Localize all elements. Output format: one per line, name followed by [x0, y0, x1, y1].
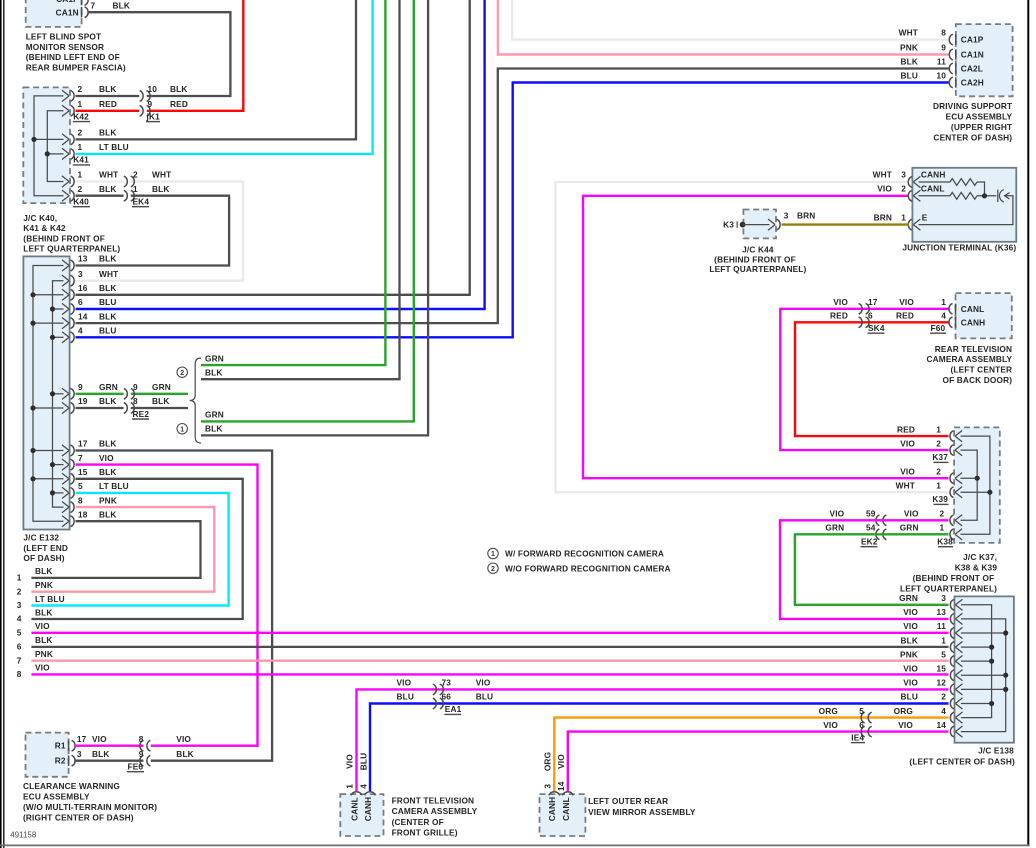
connector FE6: [147, 740, 151, 751]
connector SK4: [859, 303, 863, 314]
svg-text:OF DASH): OF DASH): [23, 553, 64, 563]
svg-text:JUNCTION TERMINAL (K36): JUNCTION TERMINAL (K36): [902, 243, 1016, 253]
mirror pin CANL: [562, 792, 573, 796]
svg-text:1: 1: [78, 99, 83, 109]
clearance warning ECU assembly: [26, 733, 69, 777]
svg-text:2: 2: [936, 466, 941, 476]
svg-text:2: 2: [78, 128, 83, 138]
wire BLK: K42 pin 2 to jK1: [76, 95, 140, 97]
wire LT BLU: K41 pin 1 up to top edge: [76, 0, 373, 154]
svg-text:K40: K40: [73, 197, 89, 207]
connector IE4: [868, 712, 872, 723]
svg-text:(BEHIND FRONT OF: (BEHIND FRONT OF: [913, 573, 995, 583]
E138 internal bus A (pins 3,1,5,2,4): [961, 605, 992, 718]
svg-text:BLK: BLK: [99, 254, 117, 264]
svg-text:K38: K38: [937, 537, 953, 547]
K44 internal wire + pin 3: [743, 224, 770, 226]
svg-text:BLU: BLU: [99, 326, 117, 336]
svg-text:13: 13: [78, 254, 88, 264]
K36 internal junction dot: [982, 193, 987, 198]
svg-text:VIO: VIO: [476, 678, 491, 688]
wire BLK: RE2 pin 8 to brace: [131, 407, 188, 409]
K36 internal: capacitor to E pin: [919, 196, 1013, 225]
svg-text:2: 2: [133, 170, 138, 180]
svg-text:BLK: BLK: [152, 184, 170, 194]
svg-text:VIO: VIO: [345, 754, 355, 769]
svg-text:10: 10: [148, 84, 158, 94]
svg-text:ECU ASSEMBLY: ECU ASSEMBLY: [23, 792, 90, 802]
svg-text:5: 5: [17, 627, 22, 637]
K36 pin CANH: [913, 176, 920, 187]
svg-text:19: 19: [78, 396, 88, 406]
svg-text:(LEFT CENTER OF DASH): (LEFT CENTER OF DASH): [909, 757, 1015, 767]
svg-text:2: 2: [78, 184, 83, 194]
svg-text:CANH: CANH: [363, 797, 373, 822]
svg-text:73: 73: [442, 678, 452, 688]
J/C pin at y=139.4: [62, 134, 69, 145]
K37-39 internal bus 1 (pins 1): [961, 436, 990, 534]
svg-text:CANH: CANH: [961, 317, 986, 327]
wire BLK: E132 pin 17 to FE6 pin 9: [76, 451, 273, 761]
svg-text:PNK: PNK: [900, 649, 918, 659]
svg-text:K41: K41: [73, 155, 89, 165]
svg-text:VIO: VIO: [397, 678, 412, 688]
K37-39 pin at y=492.2: [955, 487, 962, 498]
svg-text:RED: RED: [99, 99, 117, 109]
svg-text:CLEARANCE WARNING: CLEARANCE WARNING: [23, 781, 120, 791]
driving support pin CA2L: [955, 63, 957, 73]
svg-text:J/C K40,: J/C K40,: [23, 213, 57, 223]
E132 pin at y=309.0: [62, 303, 69, 314]
svg-text:4: 4: [941, 706, 946, 716]
K44 node K3 dot: [740, 222, 746, 228]
wire BLK: R2 to FE6: [74, 760, 143, 762]
rear camera pin CANH (F60): [955, 317, 957, 327]
svg-text:2: 2: [17, 586, 22, 596]
svg-text:1: 1: [17, 573, 22, 583]
svg-text:491158: 491158: [10, 831, 37, 840]
svg-text:LT BLU: LT BLU: [99, 481, 129, 491]
svg-text:14: 14: [78, 311, 88, 321]
E132 pin at y=464.6: [62, 459, 69, 470]
svg-text:8: 8: [139, 734, 144, 744]
E132 pin at y=408.0: [62, 402, 69, 413]
svg-text:BLK: BLK: [113, 0, 131, 10]
svg-text:8: 8: [78, 495, 83, 505]
junction connector J/C E138: [955, 596, 1014, 742]
wire LT BLU: E132 pin 5 to stub 3: [31, 493, 228, 606]
svg-text:ORG: ORG: [894, 706, 913, 716]
svg-text:CANL: CANL: [349, 797, 359, 821]
E132 pin at y=492.9: [62, 487, 69, 498]
E138 pin at y=703.5: [955, 698, 962, 709]
svg-text:BLU: BLU: [358, 753, 368, 771]
svg-text:VIO: VIO: [903, 663, 918, 673]
J/C pin at y=195.7: [62, 190, 69, 201]
wire RED: K42 pin 1 to jK1: [76, 110, 140, 112]
svg-text:6: 6: [78, 297, 83, 307]
svg-text:CANH: CANH: [921, 170, 946, 180]
svg-text:BLK: BLK: [35, 635, 53, 645]
E132 pin at y=450.5: [62, 445, 69, 456]
svg-text:BLK: BLK: [99, 439, 117, 449]
left outer rear view mirror assembly: [540, 794, 586, 836]
rear television camera assembly: [956, 293, 1012, 338]
svg-text:BLU: BLU: [900, 692, 918, 702]
svg-text:1: 1: [78, 170, 83, 180]
svg-text:VIO: VIO: [823, 720, 838, 730]
wire WHT: K39 pin 1 to K36 CANH: [555, 182, 948, 492]
svg-text:EK4: EK4: [133, 197, 150, 207]
E138 pin at y=717.6: [955, 712, 962, 723]
svg-text:BRN: BRN: [874, 212, 892, 222]
svg-text:jK1: jK1: [146, 111, 161, 121]
svg-text:BLK: BLK: [176, 749, 194, 759]
wire PNK: E132 pin 8 to stub 2: [31, 507, 214, 592]
E138 pin at y=647.1: [955, 642, 962, 653]
svg-text:PNK: PNK: [35, 580, 53, 590]
svg-text:WHT: WHT: [873, 170, 892, 180]
svg-text:2: 2: [78, 84, 83, 94]
svg-text:14: 14: [556, 781, 566, 791]
svg-text:K41 & K42: K41 & K42: [23, 223, 66, 233]
svg-text:13: 13: [936, 607, 946, 617]
svg-text:3: 3: [77, 749, 82, 759]
svg-text:WHT: WHT: [99, 170, 118, 180]
svg-text:1: 1: [901, 212, 906, 222]
svg-text:10: 10: [936, 71, 946, 81]
svg-text:VIO: VIO: [900, 438, 915, 448]
svg-text:RED: RED: [897, 424, 915, 434]
svg-text:RE2: RE2: [133, 409, 150, 419]
svg-text:GRN: GRN: [152, 382, 171, 392]
legend circled 2: [488, 563, 498, 573]
K37-39 pin at y=450.1: [955, 445, 962, 456]
K36 pin CANL: [913, 190, 920, 201]
svg-text:9: 9: [941, 43, 946, 53]
svg-text:CA2H: CA2H: [961, 78, 984, 88]
wire BLU: E132 pin 6 up to top edge: [76, 0, 485, 309]
svg-text:8: 8: [17, 669, 22, 679]
svg-text:IE4: IE4: [851, 732, 864, 742]
svg-text:3: 3: [784, 210, 789, 220]
circled 2 (w/o forward recognition camera): [177, 367, 187, 377]
svg-text:VIO: VIO: [176, 734, 191, 744]
wire VIO: K38 pin 2 via EK2 to E138 pin 13: [780, 520, 949, 619]
wire BLK option2 up to top edge: [201, 0, 400, 379]
svg-text:8: 8: [133, 396, 138, 406]
legend circled 1: [488, 548, 498, 558]
svg-text:LT BLU: LT BLU: [99, 142, 129, 152]
wire BLK: E132 pin 18 to stub 1: [31, 521, 200, 578]
svg-text:14: 14: [936, 720, 946, 730]
svg-text:(BEHIND FRONT OF: (BEHIND FRONT OF: [23, 233, 105, 243]
svg-text:2: 2: [940, 509, 945, 519]
rear camera pin CANL (F60): [955, 304, 957, 314]
svg-text:15: 15: [936, 663, 946, 673]
svg-text:BLK: BLK: [99, 467, 117, 477]
wire BLK: E132 pin 15 to stub 4: [31, 479, 242, 619]
svg-text:BLK: BLK: [900, 57, 918, 67]
brace for camera options: [190, 358, 201, 443]
wire WHT: EK4 pin 2 to E132 pin 3: [76, 182, 243, 281]
J/C pin at y=110.8: [62, 105, 69, 116]
svg-text:OF BACK DOOR): OF BACK DOOR): [942, 375, 1012, 385]
svg-text:1: 1: [936, 480, 941, 490]
E132 internal bus B (pins 3,6,4,9,7,5,8): [53, 281, 64, 507]
svg-text:1: 1: [345, 784, 355, 789]
svg-text:5: 5: [859, 706, 864, 716]
svg-text:CANL: CANL: [561, 797, 571, 821]
pin R2: [68, 756, 70, 766]
svg-text:W/O FORWARD RECOGNITION CAMERA: W/O FORWARD RECOGNITION CAMERA: [505, 563, 671, 573]
svg-text:17: 17: [868, 297, 878, 307]
left blind spot monitor sensor (box, cut at top): [26, 0, 82, 27]
svg-text:12: 12: [936, 678, 946, 688]
wire PNK stub 7 to E138 pin 5: [31, 660, 948, 662]
svg-text:BLK: BLK: [99, 396, 117, 406]
svg-text:11: 11: [937, 57, 946, 67]
svg-text:J/C K44: J/C K44: [742, 245, 774, 255]
svg-text:1: 1: [936, 424, 941, 434]
K44 external stub K3 bar: [736, 221, 738, 227]
svg-text:BLK: BLK: [35, 566, 53, 576]
wire VIO: R1 to FE6: [74, 745, 143, 747]
svg-text:6: 6: [859, 720, 864, 730]
svg-text:BLK: BLK: [205, 367, 223, 377]
pin CA1N: [81, 7, 83, 17]
E132 pin at y=478.8: [62, 473, 69, 484]
E132 pin at y=265.5: [62, 260, 69, 271]
svg-text:5: 5: [78, 481, 83, 491]
svg-text:WHT: WHT: [896, 480, 915, 490]
K40-42 internal bus B (signal pins): [47, 111, 63, 182]
E138 pin at y=661.1: [955, 656, 962, 667]
svg-text:GRN: GRN: [900, 523, 919, 533]
svg-text:5: 5: [941, 649, 946, 659]
svg-text:BLK: BLK: [99, 509, 117, 519]
wire BLK: E132 pin 19 to RE2: [76, 407, 124, 409]
E132 pin at y=280.7: [62, 275, 69, 286]
svg-text:J/C K37,: J/C K37,: [963, 552, 997, 562]
svg-text:9: 9: [78, 382, 83, 392]
page border left inner: [3, 0, 5, 848]
svg-text:BLK: BLK: [99, 84, 117, 94]
svg-text:2: 2: [901, 183, 906, 193]
svg-text:VIO: VIO: [898, 720, 913, 730]
svg-text:VIO: VIO: [35, 663, 50, 673]
svg-text:CA1N: CA1N: [961, 50, 984, 60]
svg-text:54: 54: [866, 523, 876, 533]
K36 internal: CANL line + resistor R-CANL: [919, 195, 951, 197]
svg-text:1: 1: [491, 551, 495, 558]
E132 pin at y=507.1: [62, 502, 69, 513]
svg-text:3: 3: [542, 784, 552, 789]
svg-text:GRN: GRN: [205, 353, 224, 363]
svg-text:6: 6: [17, 642, 22, 652]
svg-text:(LEFT CENTER: (LEFT CENTER: [950, 365, 1012, 375]
connector RE2: [124, 388, 128, 399]
svg-text:1: 1: [180, 426, 184, 433]
wire BLK stub 6 to E138 pin 1: [31, 646, 948, 648]
svg-text:BLK: BLK: [35, 607, 53, 617]
svg-text:9: 9: [148, 99, 153, 109]
driving support pin CA1N: [955, 49, 957, 59]
svg-text:9: 9: [133, 382, 138, 392]
svg-text:ECU ASSEMBLY: ECU ASSEMBLY: [946, 111, 1013, 121]
svg-text:LEFT BLIND SPOT: LEFT BLIND SPOT: [26, 31, 102, 41]
svg-text:BLU: BLU: [397, 692, 415, 702]
svg-text:1: 1: [940, 523, 945, 533]
wire BLU: front camera CANH via EA1 to E138 pin 2: [370, 704, 949, 792]
J/C pin at y=153.9: [62, 148, 69, 159]
svg-text:VIO: VIO: [877, 183, 892, 193]
junction connector J/C K37 K38 K39: [954, 427, 1000, 543]
E132 pin at y=294.8: [62, 289, 69, 300]
svg-text:FRONT TELEVISION: FRONT TELEVISION: [392, 795, 475, 805]
wire BLK: K41 pin 2 up to top edge: [76, 0, 357, 139]
connector jK1: [140, 91, 144, 102]
svg-text:GRN: GRN: [899, 593, 918, 603]
svg-text:2: 2: [180, 370, 184, 377]
svg-text:2: 2: [491, 566, 495, 573]
E138 pin at y=633.0: [955, 627, 962, 638]
E138 pin at y=731.6: [955, 726, 962, 737]
svg-text:LEFT OUTER REAR: LEFT OUTER REAR: [588, 796, 668, 806]
page border left outer: [0, 0, 2, 848]
wire VIO: front camera CANL via EA1 to E138 pin 12: [357, 689, 949, 791]
K36 internal: CANH line + resistor R-CANH: [919, 181, 951, 183]
svg-text:CANH: CANH: [547, 797, 557, 822]
svg-text:LEFT QUARTERPANEL): LEFT QUARTERPANEL): [23, 244, 120, 254]
wire WHT: K40 pin 1 to EK4: [76, 180, 124, 182]
driving support pin CA2H: [955, 77, 957, 87]
wire VIO: K39 pin 2 to K36 CANL: [583, 196, 949, 478]
svg-text:VIO: VIO: [99, 453, 114, 463]
svg-text:CAMERA ASSEMBLY: CAMERA ASSEMBLY: [392, 806, 478, 816]
svg-text:WHT: WHT: [152, 170, 171, 180]
K37-39 pin at y=534.3: [955, 529, 962, 540]
svg-text:CA1P: CA1P: [56, 0, 79, 4]
wire GRN: RE2 pin 9 to brace: [131, 393, 188, 395]
svg-text:VIO: VIO: [900, 466, 915, 476]
K36 pin E: [913, 219, 920, 230]
svg-text:RED: RED: [170, 99, 188, 109]
wire BLK: K40 pin 2 to EK4: [76, 195, 124, 197]
svg-text:PNK: PNK: [99, 495, 117, 505]
svg-text:VIO: VIO: [903, 678, 918, 688]
svg-text:7: 7: [17, 655, 22, 665]
svg-text:CA2L: CA2L: [961, 64, 983, 74]
svg-text:WHT: WHT: [899, 28, 918, 38]
svg-text:1: 1: [133, 184, 138, 194]
wire ORG: mirror CANH via IE4 to E138 pin 4: [554, 718, 948, 791]
svg-text:E: E: [922, 212, 928, 222]
K37-39 pin at y=436.1: [955, 431, 962, 442]
svg-text:FE6: FE6: [128, 762, 144, 772]
front camera pin CANH: [365, 792, 376, 796]
wire BLU: E132 pin 4 to driving support CA2H: [76, 83, 949, 338]
wire VIO stub 8 to E138 pin 15: [31, 673, 948, 675]
wire GRN option1 up to top edge: [201, 0, 414, 421]
svg-text:18: 18: [78, 509, 88, 519]
svg-text:4: 4: [941, 311, 946, 321]
svg-text:(BEHIND LEFT END OF: (BEHIND LEFT END OF: [26, 52, 120, 62]
svg-text:BLK: BLK: [152, 396, 170, 406]
svg-text:15: 15: [78, 467, 88, 477]
wire VIO: rear camera CANL via SK4 to K37 pin 2: [780, 309, 949, 450]
svg-text:(RIGHT CENTER OF DASH): (RIGHT CENTER OF DASH): [23, 813, 134, 823]
svg-text:CA1N: CA1N: [56, 7, 79, 17]
svg-text:LT BLU: LT BLU: [35, 594, 65, 604]
wire WHT from top edge to CA1P: [512, 0, 948, 40]
svg-text:(LEFT END: (LEFT END: [23, 543, 68, 553]
svg-text:4: 4: [17, 614, 22, 624]
svg-text:(CENTER OF: (CENTER OF: [392, 817, 444, 827]
svg-text:CANL: CANL: [921, 183, 945, 193]
svg-text:1: 1: [78, 142, 83, 152]
wire BLK option1 up to top edge: [201, 0, 428, 435]
wire VIO: E132 pin 7 to FE6 pin 8: [76, 465, 258, 746]
svg-text:59: 59: [866, 509, 876, 519]
svg-text:4: 4: [78, 326, 83, 336]
E132 pin at y=393.8: [62, 388, 69, 399]
svg-text:17: 17: [77, 734, 87, 744]
connector EA1: [433, 684, 437, 695]
svg-text:BLK: BLK: [170, 84, 188, 94]
svg-text:K37: K37: [932, 452, 948, 462]
svg-text:VIO: VIO: [830, 509, 845, 519]
svg-text:FRONT GRILLE): FRONT GRILLE): [392, 828, 458, 838]
svg-text:BLU: BLU: [99, 297, 117, 307]
svg-text:MONITOR SENSOR: MONITOR SENSOR: [26, 42, 104, 52]
front television camera assembly: [340, 794, 383, 836]
K36 internal capacitor C1: [997, 190, 999, 202]
pin CA1P (cut at top edge): [81, 0, 83, 5]
J/C pin at y=95.9: [62, 90, 69, 101]
svg-text:VIO: VIO: [92, 734, 107, 744]
wire RED: rear camera CANH via SK4 to K37 pin 1: [795, 322, 950, 436]
wire BLK: E132 pin 16 up to top edge: [76, 0, 470, 295]
svg-text:VIO: VIO: [903, 607, 918, 617]
pin R1: [68, 741, 70, 751]
svg-text:CAMERA ASSEMBLY: CAMERA ASSEMBLY: [926, 354, 1012, 364]
svg-text:4: 4: [358, 784, 368, 789]
svg-text:J/C E132: J/C E132: [23, 533, 59, 543]
E132 pin at y=323.1: [62, 318, 69, 329]
svg-text:GRN: GRN: [205, 410, 224, 420]
svg-text:R2: R2: [55, 756, 66, 766]
wire GRN: E132 pin 9 to RE2: [76, 393, 124, 395]
junction connector J/C K44: [743, 210, 776, 239]
svg-text:BLK: BLK: [99, 128, 117, 138]
svg-text:6: 6: [868, 311, 873, 321]
wire BRN: K44 pin 3 to K36 pin E: [782, 223, 910, 225]
svg-text:BLU: BLU: [900, 71, 918, 81]
svg-text:VIEW MIRROR ASSEMBLY: VIEW MIRROR ASSEMBLY: [588, 807, 696, 817]
page border right: [1027, 0, 1029, 846]
front camera pin CANL: [351, 792, 362, 796]
svg-text:WHT: WHT: [99, 269, 118, 279]
svg-text:R1: R1: [55, 741, 66, 751]
svg-text:J/C E138: J/C E138: [978, 746, 1014, 756]
junction terminal K36: [912, 168, 1016, 242]
junction connector J/C E132: [23, 256, 69, 529]
svg-text:CANL: CANL: [961, 304, 985, 314]
svg-text:8: 8: [941, 28, 946, 38]
wire GRN: K38 pin 1 via EK2 to E138 pin 3: [795, 534, 949, 605]
wire RED: jK1 pin 9 up to top edge: [147, 0, 244, 111]
